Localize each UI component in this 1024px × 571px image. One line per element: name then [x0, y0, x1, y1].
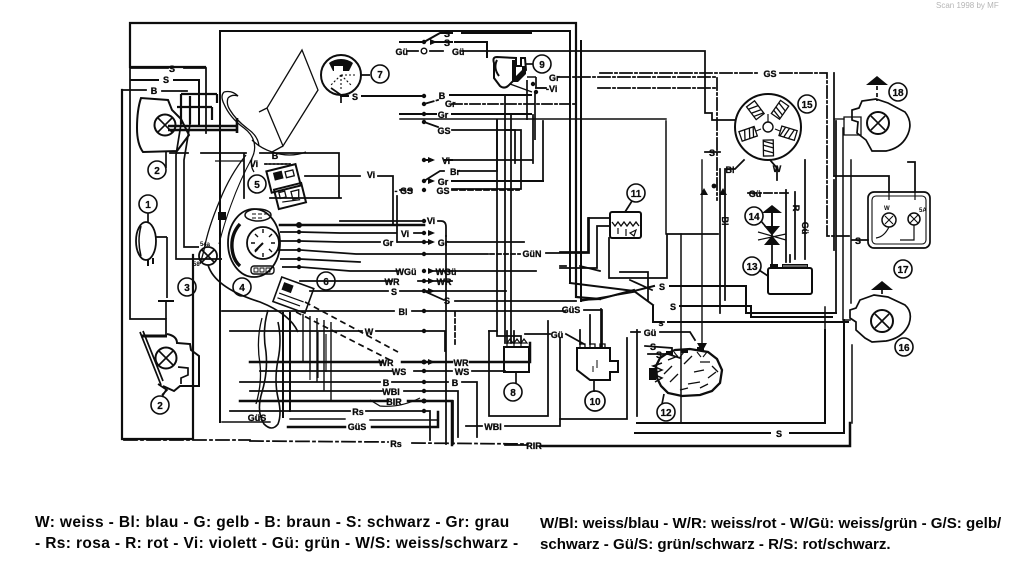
wire Gr row y114 [400, 113, 531, 115]
speedometer 4 [228, 209, 280, 277]
circle 4 [233, 278, 251, 296]
scooter front fork [222, 92, 255, 173]
box 10 [577, 348, 618, 380]
wire Vi row y163 [424, 159, 452, 161]
svg-text:Gr: Gr [383, 238, 394, 248]
svg-text:6: 6 [323, 277, 329, 288]
wire Gü row y332 [525, 332, 695, 344]
wire RlR left tail [505, 444, 527, 446]
svg-text:S: S [776, 429, 782, 439]
svg-text:WR: WR [437, 277, 452, 287]
wire engine S hooks [636, 330, 638, 416]
wire GüS down to box10 [584, 310, 602, 348]
diode 14 arrow [762, 205, 782, 213]
svg-text:2: 2 [154, 166, 160, 177]
svg-text:Vi: Vi [401, 229, 409, 239]
headlamp 2 top bracket [177, 94, 217, 124]
svg-text:WR: WR [385, 277, 400, 287]
svg-text:B: B [272, 151, 279, 161]
circle 8 [504, 383, 522, 401]
svg-text:S: S [709, 148, 715, 158]
svg-text:2: 2 [157, 401, 163, 412]
arrow 16 [871, 281, 893, 290]
engine 12 [656, 349, 722, 396]
wire Gü dash flywheel [748, 192, 790, 194]
svg-text:W: W [773, 164, 782, 174]
flywheel 15 [735, 94, 801, 160]
wire S labels engine [657, 321, 664, 323]
svg-text:Gr: Gr [438, 110, 449, 120]
lamp 18 top [852, 99, 910, 151]
svg-text:Vi: Vi [250, 159, 258, 169]
diode 14 body [764, 226, 780, 245]
arrow 18 [866, 76, 888, 85]
svg-text:WS: WS [455, 367, 470, 377]
box 8 [504, 347, 529, 372]
svg-text:4: 4 [239, 283, 245, 294]
wire Bl row y311 [222, 310, 565, 312]
svg-text:9: 9 [539, 60, 545, 71]
wire Gr row y181 [452, 180, 543, 182]
regulator 11 [610, 212, 641, 238]
svg-text:RlR: RlR [526, 441, 542, 451]
svg-text:GüS: GüS [248, 413, 267, 423]
wire WBl dashed drop [454, 312, 456, 345]
svg-text:16: 16 [898, 343, 910, 354]
wire Vi ign dash [536, 87, 715, 89]
svg-text:11: 11 [631, 189, 642, 200]
svg-text:8: 8 [510, 388, 516, 399]
box 17 [868, 192, 930, 248]
svg-text:Gü: Gü [396, 47, 409, 57]
svg-text:WBl: WBl [382, 387, 400, 397]
svg-text:Gr: Gr [549, 73, 560, 83]
wire RlR bottom [541, 423, 850, 446]
svg-text:S: S [169, 64, 175, 74]
wire GüS bold lower [288, 412, 438, 427]
svg-text:S: S [163, 75, 169, 85]
wire GS vertical from label [396, 196, 398, 242]
circle 12 [657, 403, 675, 421]
legend left [35, 513, 519, 554]
wire box17 feeds [834, 162, 915, 192]
Gü open connector [421, 48, 427, 54]
svg-text:s: s [658, 318, 663, 328]
horn 7 [321, 55, 361, 95]
svg-text:3: 3 [184, 283, 190, 294]
svg-text:Vi: Vi [367, 170, 375, 180]
wires from lamp to horn/key [176, 124, 222, 259]
wire S row y291 [310, 291, 576, 301]
wire B label line mid-left [170, 153, 341, 198]
ignition switch 9 [493, 57, 526, 88]
svg-text:Bl: Bl [720, 217, 730, 226]
circle 2 top [148, 161, 166, 179]
wire GS row y130 [424, 122, 515, 130]
scooter steering column [259, 50, 318, 152]
svg-text:W: W [884, 206, 890, 212]
wire battery to ground [772, 213, 790, 265]
circle 1 [139, 195, 157, 213]
scan credit [936, 1, 999, 10]
svg-text:15: 15 [801, 100, 813, 111]
headlamp 2 top stem [165, 152, 167, 168]
wire Br row y173 [424, 120, 497, 181]
wire box8 enclosure [489, 321, 627, 419]
svg-text:5: 5 [254, 180, 260, 191]
scooter floor leg [259, 310, 280, 428]
wire B lamp2top y90 [122, 90, 187, 91]
wire S into box17 [852, 239, 868, 241]
headlamp 2 top bulb [155, 115, 176, 136]
legend right [540, 514, 1001, 555]
circle 10 [585, 391, 605, 411]
wire S lamp2top y79 [131, 80, 199, 124]
svg-text:S: S [391, 287, 397, 297]
wire speedo row y225 bold [280, 224, 424, 227]
wire lamp18 drop [834, 73, 836, 313]
svg-text:S: S [659, 282, 665, 292]
wire GüS lower left [222, 419, 438, 422]
svg-text:W: W [365, 327, 374, 337]
svg-text:Gü: Gü [644, 328, 657, 338]
svg-text:B: B [452, 378, 459, 388]
wire S lamp2top y68 [130, 68, 206, 334]
wire engine enclosure [635, 320, 844, 433]
wire Gr ign dashdot [558, 77, 717, 200]
svg-text:WGü: WGü [436, 267, 457, 277]
svg-text:Gü: Gü [452, 47, 465, 57]
svg-text:S: S [444, 296, 450, 306]
scooter body lower [200, 155, 246, 264]
circle 11 [627, 184, 645, 202]
wire flywheel leads [705, 152, 805, 300]
svg-text:7: 7 [377, 70, 383, 81]
wire S top frame [130, 23, 600, 299]
svg-text:Vi: Vi [442, 156, 450, 166]
wire box8 feeds [489, 331, 521, 343]
circle 2 bottom [151, 396, 169, 414]
headlamp 2 top body [137, 98, 189, 152]
svg-text:-Vi: -Vi [546, 84, 557, 94]
svg-text:GS: GS [436, 186, 449, 196]
wire B row y96 [341, 95, 531, 96]
svg-text:Gü: Gü [749, 189, 762, 199]
svg-text:BlR: BlR [386, 397, 402, 407]
wire B row y382 [240, 382, 477, 437]
wire Bl vertical label line [719, 169, 721, 313]
wire W row y331 [230, 236, 453, 444]
svg-text:GüS: GüS [562, 305, 581, 315]
wire connector plug top right [844, 117, 861, 135]
connector dots column [422, 39, 728, 413]
wire speedo rows to labels [300, 232, 536, 281]
wire kill vertical [701, 160, 703, 348]
circle 7 [371, 65, 389, 83]
wire verticals center-right [452, 95, 543, 343]
svg-text:13: 13 [746, 262, 758, 273]
svg-text:Gr: Gr [445, 99, 456, 109]
svg-text:- GS: - GS [394, 186, 413, 196]
key switch 3 [199, 247, 217, 265]
horn 1 [136, 222, 156, 260]
switch6 dashed slants [305, 302, 398, 352]
taillamp 2 bottom bulb [156, 348, 177, 369]
svg-text:Gr: Gr [438, 238, 449, 248]
circle 6 [317, 272, 335, 290]
svg-text:Rs: Rs [390, 439, 402, 449]
svg-text:S: S [855, 236, 861, 246]
wire GS dotted row y190 [400, 189, 519, 191]
svg-text:GS: GS [763, 69, 776, 79]
taillamp 2 bottom body [140, 331, 167, 395]
svg-text:S: S [656, 350, 662, 360]
circle 17 [894, 260, 912, 278]
wire Rs row y411 [230, 411, 430, 440]
svg-text:GüS: GüS [348, 422, 367, 432]
speedo contact dots [296, 222, 302, 269]
svg-text:Gü: Gü [800, 222, 810, 235]
svg-text:WGü: WGü [396, 267, 417, 277]
wire GS dashdot right [600, 73, 852, 236]
wire Vi hook row [340, 221, 446, 236]
switch 6 [273, 277, 314, 313]
svg-text:WS: WS [392, 367, 407, 377]
wire central vertical left [219, 31, 221, 422]
circle 15 [798, 95, 816, 113]
svg-text:Vi: Vi [427, 216, 435, 226]
svg-text:58: 58 [193, 262, 200, 268]
circle 16 [895, 338, 913, 356]
svg-text:R: R [791, 205, 801, 212]
svg-text:GS: GS [437, 126, 450, 136]
svg-text:10: 10 [589, 397, 601, 408]
svg-text:5A: 5A [919, 208, 927, 214]
circle 3 [178, 278, 196, 296]
svg-text:Rs: Rs [352, 407, 364, 417]
wire Gü top [408, 51, 735, 120]
kickstart lever [310, 330, 326, 380]
wire box10 top feeds [580, 309, 601, 348]
circle 9 [533, 55, 551, 73]
svg-text:WBl: WBl [484, 422, 502, 432]
wire Vi switch5 down [265, 163, 290, 165]
circle 18 [889, 83, 907, 101]
wire parallel right verticals [580, 41, 582, 301]
wire S top right pair [400, 33, 531, 57]
svg-text:54a: 54a [200, 242, 211, 248]
wire S feeds long horizontals [570, 283, 836, 313]
wire B left border [122, 90, 193, 439]
svg-text:Bl: Bl [726, 165, 735, 175]
svg-text:Gü: Gü [551, 330, 564, 340]
svg-text:GüN: GüN [523, 249, 542, 259]
svg-text:17: 17 [897, 265, 909, 276]
circle 5 [248, 175, 266, 193]
wire regulator S hooks [560, 266, 648, 300]
svg-text:1: 1 [145, 200, 151, 211]
wire right verticals to lamp16 [825, 128, 852, 423]
svg-text:S: S [444, 38, 450, 48]
lamp 16 bottom [850, 295, 910, 342]
battery 13 [768, 268, 812, 294]
svg-text:12: 12 [660, 408, 672, 419]
wire S engine top [645, 346, 680, 358]
svg-text:18: 18 [892, 88, 904, 99]
switch 5 [266, 164, 300, 193]
wire WS row y371 [260, 370, 505, 372]
wire S inner top [222, 31, 570, 283]
svg-text:Br: Br [450, 167, 460, 177]
circle 14 [745, 207, 763, 225]
circle 13 [743, 257, 761, 275]
wire GSN row [490, 253, 520, 255]
wire bottom dash-dot Rs [124, 440, 528, 444]
svg-text:Bl: Bl [399, 307, 408, 317]
wire WBl row y391 [250, 391, 458, 437]
wire fork stub [215, 160, 244, 162]
wire WBl row y426 [466, 419, 560, 426]
svg-text:14: 14 [748, 212, 760, 223]
junction square [218, 212, 226, 220]
wire long y119 [400, 119, 681, 423]
svg-text:S: S [352, 92, 358, 102]
wire BlR row y401 [240, 401, 452, 445]
wire WR row y362 [250, 343, 530, 362]
wire Gr dash row y104 [424, 100, 576, 104]
wire regulator11 [560, 218, 610, 268]
svg-text:S: S [670, 302, 676, 312]
svg-text:B: B [151, 86, 158, 96]
